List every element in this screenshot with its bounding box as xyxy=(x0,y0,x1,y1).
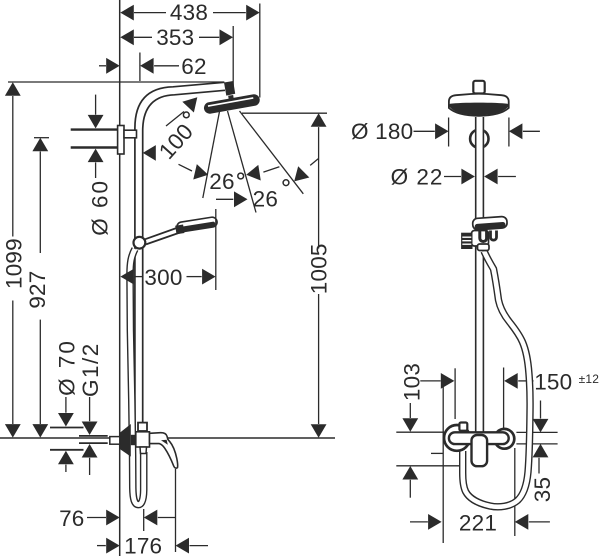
wall nipple xyxy=(110,437,120,445)
dimension 927 xyxy=(25,138,50,438)
svg-text:Ø 70: Ø 70 xyxy=(55,339,80,396)
holder body xyxy=(472,231,489,247)
reference line lever bottom right view xyxy=(396,465,460,467)
svg-text:1005: 1005 xyxy=(307,243,332,294)
bottom hose port xyxy=(140,447,147,454)
svg-text:1099: 1099 xyxy=(1,238,26,289)
dimension 176 xyxy=(97,469,208,558)
reference line mixer centerline right view xyxy=(396,431,444,433)
escutcheon cone xyxy=(120,424,131,457)
svg-text:35: 35 xyxy=(530,477,555,502)
valve body xyxy=(136,432,150,447)
svg-text:G1/2: G1/2 xyxy=(78,342,103,397)
hose connection nut on riser xyxy=(138,423,147,431)
shower head front view xyxy=(449,94,509,116)
dimension 150 plus-minus 12 xyxy=(420,369,599,394)
svg-text:76: 76 xyxy=(59,506,84,531)
svg-text:Ø 180: Ø 180 xyxy=(351,119,413,144)
dimension 300 xyxy=(120,209,215,290)
wall bracket upper (side view) xyxy=(118,126,137,155)
dimension diameter 180 xyxy=(351,119,540,144)
dimension 1099 xyxy=(1,82,26,437)
extension line 150 left xyxy=(454,368,456,419)
wall line xyxy=(119,0,121,556)
top stub (front view) xyxy=(473,81,484,94)
hand shower front view with holder xyxy=(462,216,508,250)
left port escutcheon xyxy=(444,425,470,451)
svg-text:438: 438 xyxy=(170,0,208,25)
svg-text:62: 62 xyxy=(181,54,206,79)
svg-text:150: 150 xyxy=(534,369,572,394)
svg-text:927: 927 xyxy=(25,271,50,309)
hose connector below holder xyxy=(478,244,490,251)
angle dimension 100 deg xyxy=(143,92,203,164)
wall bracket circle (front view) xyxy=(470,130,488,148)
dimension G1/2 xyxy=(78,342,108,475)
angle dimension 26 deg first xyxy=(179,164,280,194)
svg-text:26: 26 xyxy=(253,187,278,212)
svg-text:300: 300 xyxy=(144,265,182,290)
lever (front) xyxy=(472,435,488,466)
valve body capsule xyxy=(449,432,509,444)
dimension 103 xyxy=(399,363,424,498)
dimension 62 xyxy=(99,53,207,82)
svg-text:221: 221 xyxy=(459,511,497,536)
lever handle xyxy=(150,433,178,468)
dimension 438 xyxy=(120,0,259,98)
extension line 221 right xyxy=(514,448,516,536)
dimension diameter 22 xyxy=(391,164,516,189)
dimension 76 xyxy=(59,506,175,531)
valve centerline left view xyxy=(0,437,335,439)
hose (side view) xyxy=(130,249,144,505)
shower head side view xyxy=(203,81,261,115)
svg-text:353: 353 xyxy=(156,25,194,50)
dimension 221 xyxy=(410,511,550,536)
svg-text:±12: ±12 xyxy=(579,372,600,386)
head extension lines xyxy=(448,118,450,147)
mixer valve (side view) xyxy=(110,424,178,468)
spray line middle xyxy=(228,111,257,213)
hose (front view) xyxy=(463,251,530,507)
dimension 353 xyxy=(120,25,233,94)
dimension diameter 60 xyxy=(71,95,118,236)
slider bracket circle xyxy=(134,237,146,249)
riser pipe with elbow arm (side view) xyxy=(135,82,225,433)
svg-text:Ø 22: Ø 22 xyxy=(391,164,444,189)
dimension diameter 70 xyxy=(50,339,84,472)
extension line 221 left xyxy=(442,383,444,543)
dimension 35 xyxy=(530,401,555,503)
diverter knob xyxy=(459,423,467,431)
reference tick near escutcheon xyxy=(431,452,444,454)
right port escutcheon xyxy=(495,429,515,449)
svg-text:103: 103 xyxy=(399,363,424,401)
svg-text:Ø 60: Ø 60 xyxy=(87,179,112,236)
mixer valve (front view) xyxy=(444,423,514,467)
hand shower (side view) xyxy=(145,216,218,244)
riser pipe (front view) xyxy=(475,117,484,433)
svg-text:26: 26 xyxy=(209,169,234,194)
extension line 150 right xyxy=(503,368,505,432)
spray line right xyxy=(240,111,304,194)
spray line left xyxy=(203,112,220,199)
svg-text:176: 176 xyxy=(124,533,162,558)
knob xyxy=(462,233,472,248)
dimension 1005 xyxy=(242,113,332,438)
holder fork hooks xyxy=(480,231,487,242)
s-union reference lines for 35 xyxy=(516,431,557,433)
dark union block xyxy=(131,435,136,445)
angle dimension 26 deg second xyxy=(216,159,318,212)
top reference line (1099 datum) xyxy=(8,81,224,83)
